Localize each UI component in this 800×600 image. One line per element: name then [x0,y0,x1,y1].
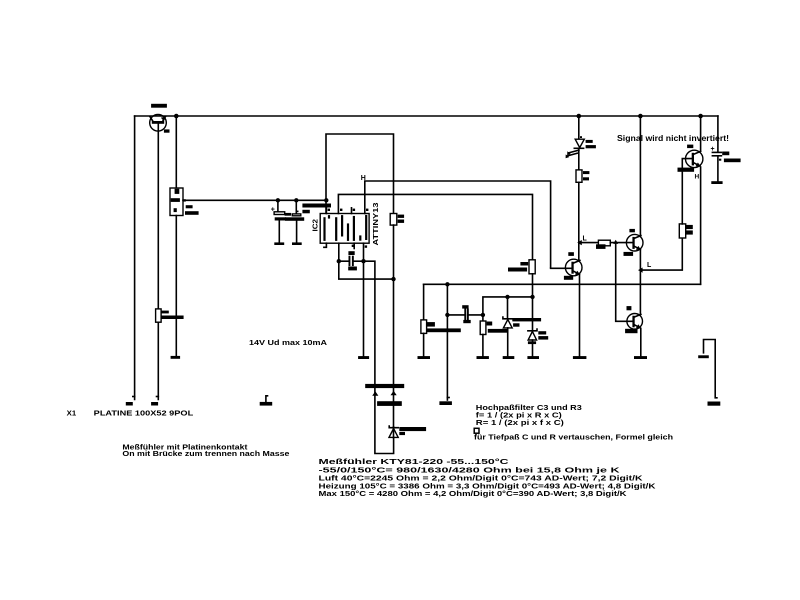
label block of C1 [285,213,292,216]
wire rail to LED [578,116,580,139]
wire arrow node down to T3 base [616,243,633,322]
node junction output/C3 [445,282,449,286]
small square bullet [474,428,479,433]
ground under T3 [634,356,647,359]
ic pin stub top 3 NC [351,208,353,214]
wire regulator to ground [175,216,177,356]
node junction C3 left [445,313,449,317]
svg-text:On mit Brücke zum trennen nach: On mit Brücke zum trennen nach Masse [122,451,289,458]
connector pin X1-1 [126,397,135,406]
node junction at IC supply [324,198,328,202]
connector pin X1-3 [260,396,273,406]
ic IC2 pin-name bars [323,215,367,241]
wire corner down to R4 [423,284,425,320]
label blocks of D3 [538,331,546,334]
wire R5 to zener node [532,274,534,331]
node junction on top rail [174,114,179,119]
wire C3 right up and over to zeners [483,297,533,315]
svg-text:PLATINE 100X52 9POL: PLATINE 100X52 9POL [94,411,194,418]
label blocks of C4 [348,251,354,255]
node junction C4 left [337,259,341,263]
resistor R5 [529,260,535,274]
wire output net horizontal [424,283,701,285]
wire C3 right down to R3 [482,315,484,321]
ground under C1 [274,242,284,245]
label blocks of T1 [568,252,574,256]
wire R3 to ground [482,335,484,357]
label blocks of C3 [462,305,468,308]
label blocks of D4 [586,140,593,143]
capacitor C5 electrolytic [711,116,722,181]
node junction at R6 line [391,277,395,281]
label blocks of T4 [687,145,693,149]
connector pin X1-4 [439,398,452,406]
label block right of Q1 [164,129,170,132]
svg-text:Signal wird nicht invertiert!: Signal wird nicht invertiert! [617,134,729,143]
ic pin stub bottom 3 NC [353,243,355,248]
svg-text:X1: X1 [67,411,77,418]
ground under regulator [171,356,181,359]
ground under C5 [711,181,722,184]
capacitor C1 electrolytic [271,200,286,242]
svg-text:H: H [361,175,366,182]
transistor T1 [551,259,582,276]
pin arrow sensor left [372,391,378,396]
node junction C2 [294,198,298,202]
svg-text:Meßfühler KTY81-220 -55...150°: Meßfühler KTY81-220 -55...150°C [319,458,509,466]
svg-text:Luft 40°C=2245 Ohm = 2,2 Ohm/D: Luft 40°C=2245 Ohm = 2,2 Ohm/Digit 0°C=7… [319,474,643,482]
pin number tick top 2 [340,209,342,211]
wire down to C3 and X1 pin [446,284,448,400]
wire T1 emitter to ground [579,274,581,356]
node junction C4 right [361,259,365,263]
label block of D2 [513,323,519,326]
resistor R4 [421,320,427,334]
ground under R4 [418,356,431,359]
svg-text:R= 1 / (2x pi x f x C): R= 1 / (2x pi x f x C) [476,420,564,427]
label blocks of R3 [487,322,493,326]
bridge jumper to ground [698,340,717,398]
svg-text:-55/0/150°C= 980/1630/4280 Ohm: -55/0/150°C= 980/1630/4280 Ohm bei 15,8 … [319,466,620,474]
resistor R3 [480,321,486,335]
svg-text:Hochpaßfilter C3 und R3: Hochpaßfilter C3 und R3 [476,405,582,412]
capacitor C4 [339,256,364,266]
label block of R7 [596,244,606,249]
ic IC2 body [320,214,369,244]
wire R6 down to sensor diode [393,225,395,427]
transistor T3 [627,314,643,330]
label block small under VCC [302,210,309,214]
transistor T4 [686,150,703,167]
wire left rail down from corner [134,116,136,400]
wire L net to R7 [580,242,598,244]
label blocks of R5 [520,262,528,266]
value label blocks of IC1 [186,205,193,208]
label blocks of R6 [398,215,404,218]
wire C4 node right to sensor line [364,261,394,453]
svg-text:H: H [695,174,700,181]
wire T4 collector [700,116,702,151]
wire R7 to T2 base [610,242,632,244]
resistor R9 [576,170,582,182]
label blocks of R4 [427,322,435,327]
wire rail to regulator [175,116,177,188]
capacitor C2 [285,200,304,242]
wire T3 emitter to ground [640,329,642,357]
pin arrow sensor right [391,391,397,396]
wire T2 collector up to rail [639,116,641,236]
svg-text:ATTINY13: ATTINY13 [371,203,380,246]
label blocks of C5 [722,152,729,156]
wire LED to R9 [578,148,580,170]
wire net from IC pin2 [338,194,532,259]
ground under D3 [527,356,539,359]
ground under D2 [503,356,515,359]
resistor R6 [390,214,397,226]
zener diode D3 [528,329,537,356]
label blocks of R8 [686,225,693,229]
label block sensor row 1 [365,384,404,388]
diode D1 sensor protection [389,426,398,438]
label blocks of T2 [629,229,635,232]
label block above Q1 [151,104,167,108]
pin number tick top 4 [366,209,368,211]
wire T4 emitter down to output net [700,167,702,284]
wire IC pin4 bottom through C4 node to ground [363,243,365,356]
resistor R8 [679,224,685,238]
ground under R3 [477,356,489,359]
wire R8 up to T4 base [682,159,691,224]
ground under C2 [292,242,302,245]
ground under IC bypass line [358,356,369,359]
node junction zener D2 [505,295,509,299]
resistor R2 [156,309,162,322]
junction arrow node L [577,240,582,245]
svg-text:f= 1 / (2x pi x R x C): f= 1 / (2x pi x R x C) [476,413,562,420]
wire IC pin2 bottom to C4 [339,243,394,279]
resistor R7 [598,240,610,246]
node junction T2 collector on rail [638,114,643,119]
connector pin X1-5 [708,402,721,406]
svg-text:14V Ud max 10mA: 14V Ud max 10mA [249,340,327,347]
label blocks of T3 [627,306,632,310]
svg-text:L: L [583,236,588,243]
node junction zener D3 [530,295,534,299]
ic pin stub top 1 [325,208,327,214]
label block sensor row 2 [377,401,402,406]
ic pin stub bottom 1 [324,243,327,247]
wire R4 to ground [423,333,425,356]
transistor Q1 [150,115,167,400]
label blocks of R9 [583,171,589,174]
wire loop from IC pin1 up and over to R6 [326,134,394,214]
zener diode D2 [503,297,512,356]
label blocks of D1 [399,427,426,431]
svg-text:IC2: IC2 [310,219,319,232]
svg-text:Max 150°C = 4280 Ohm = 4,2 Oh: Max 150°C = 4280 Ohm = 4,2 Ohm/Digit 0°C… [319,490,627,498]
node junction C3 right [481,313,485,317]
transistor T2 [626,234,643,251]
led D4 [566,136,585,158]
wire T2 emitter to T3 collector [639,250,641,315]
wire L2 net right and up to R8 [641,238,683,270]
node junction C1 [276,198,280,202]
wire top supply rail [135,115,718,117]
ground under T1 [573,356,587,359]
svg-text:für Tiefpaß C und R vertausche: für Tiefpaß C und R vertauschen, Formel … [474,435,673,442]
wire regulator output to IC [183,199,326,201]
label block long right of D2 [512,318,541,321]
label block VCC net [302,204,331,208]
wire H net from IC pin4 [365,181,551,268]
label blocks of R2 [161,311,169,314]
svg-text:L: L [647,262,652,269]
capacitor C3 [447,309,483,321]
junction arrow T2/T3 base node [613,240,618,244]
svg-text:Heizung 105°C = 3386 Ohm = 3,3: Heizung 105°C = 3386 Ohm = 3,3 Ohm/Digit… [319,482,656,490]
connector pin X1-2 [151,397,158,406]
node junction LED on rail [577,114,582,119]
node junction T4 collector on rail [698,114,703,119]
junction arrow L2 [638,268,643,273]
voltage regulator IC1 [170,188,186,216]
wire R9 to T1 collector and ground [578,182,580,260]
